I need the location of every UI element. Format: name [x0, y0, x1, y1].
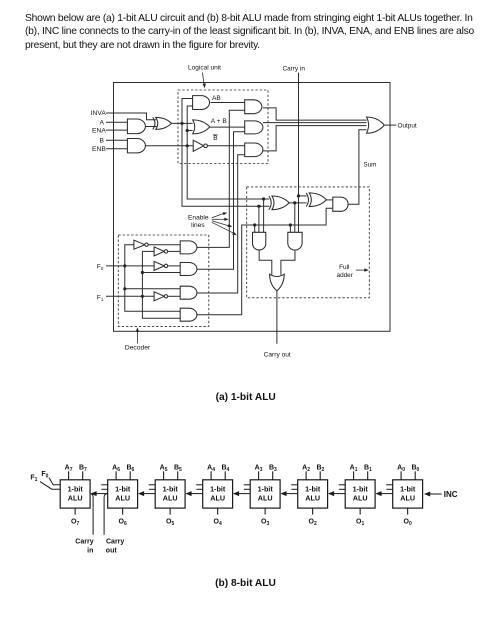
wire carry-in branch to XOR2 top input	[299, 195, 307, 197]
bus stubs into ALU box 2	[291, 484, 298, 486]
wire O6 output	[122, 508, 124, 514]
wire O2 output	[312, 508, 314, 514]
wire B1 input	[367, 471, 369, 480]
node B tap on B row	[186, 144, 189, 147]
svg-text:ALU: ALU	[258, 494, 273, 503]
svg-text:1-bit: 1-bit	[68, 484, 84, 493]
node enable tap to left carry AND	[253, 223, 256, 226]
wire tap down from bottom input	[258, 206, 260, 232]
svg-text:A + B: A + B	[211, 118, 228, 125]
svg-text:Output: Output	[398, 122, 417, 129]
inverter NOT B (logical unit)	[193, 140, 204, 151]
wire carry from ALU 6 to ALU 7 with arrow	[96, 493, 108, 495]
svg-text:Sum: Sum	[363, 161, 376, 168]
wire enable stub into right carry AND	[289, 225, 291, 232]
wire inverter4 out to AND3 bottom	[168, 295, 181, 297]
wire A+B row to enable gate 2	[210, 126, 245, 128]
node F1 tap	[141, 295, 144, 298]
svg-text:O4: O4	[214, 518, 222, 527]
svg-text:ALU: ALU	[115, 494, 130, 503]
enable AND gate 1 (AB)	[245, 100, 262, 114]
wire XOR2 out to sum AND	[326, 199, 333, 201]
svg-text:ALU: ALU	[68, 494, 83, 503]
wire A5 input	[163, 471, 165, 480]
wire B2 input	[319, 471, 321, 480]
svg-text:F1: F1	[30, 474, 37, 483]
svg-text:ALU: ALU	[163, 494, 178, 503]
svg-text:O3: O3	[261, 518, 269, 527]
dashed box decoder	[118, 235, 209, 326]
wire B7 input	[82, 471, 84, 480]
wire carry from ALU 2 to ALU 3 with arrow	[286, 493, 298, 495]
svg-text:Full: Full	[339, 264, 349, 271]
wire F0 branch to AND3 top	[125, 288, 180, 290]
wire ENB input	[106, 148, 127, 150]
wire A input	[106, 121, 127, 123]
wire F0 vertical with elbows to inverter1 and AND4 top	[125, 245, 180, 312]
wire A3 input	[258, 471, 260, 480]
svg-text:1-bit: 1-bit	[258, 484, 274, 493]
svg-text:ALU: ALU	[353, 494, 368, 503]
right carry AND gate (vertical)	[288, 232, 302, 250]
wire decoder enable line 3 to gate3	[197, 155, 245, 293]
wire AB row to enable gate 1	[211, 102, 245, 104]
svg-text:F0: F0	[97, 264, 104, 273]
wire INVA input with step into XOR	[106, 113, 156, 120]
wire F1 into ALU 7	[40, 482, 60, 490]
wire carry out	[276, 291, 278, 344]
wire B3 input	[272, 471, 274, 480]
wire A4 input	[210, 471, 212, 480]
wire decoder enable line 1 to gate1	[197, 110, 245, 247]
wire carry from ALU 4 to ALU 5 with arrow	[191, 493, 203, 495]
svg-text:O5: O5	[166, 518, 174, 527]
svg-text:(b) 8-bit ALU: (b) 8-bit ALU	[215, 578, 276, 589]
node F1 branch to decoder AND2	[141, 271, 144, 274]
decoder inverter 2	[154, 247, 164, 256]
bus stubs into ALU box 6	[101, 484, 108, 486]
1-bit ALU box 2	[298, 480, 328, 508]
bus stubs into ALU box 1	[339, 484, 346, 486]
left carry AND gate (vertical)	[253, 232, 266, 250]
wire carry from ALU 3 to ALU 4 with arrow	[238, 493, 250, 495]
wire inverter1 out to AND1 top	[148, 244, 180, 246]
node F0 branch to decoder AND3	[123, 287, 126, 290]
sum enable AND gate	[333, 197, 348, 211]
svg-text:ALU: ALU	[305, 494, 320, 503]
decoder inverter 1	[134, 240, 145, 249]
svg-text:Decoder: Decoder	[125, 345, 151, 352]
decoder AND gate 4	[180, 308, 197, 321]
wire left carry AND out zigzag to carry OR	[259, 251, 272, 275]
wire B6 input	[129, 471, 131, 480]
node XOR1 out tap	[293, 201, 296, 204]
wire B5 input	[177, 471, 179, 480]
wire B input	[106, 139, 127, 141]
wire A vertical x=182 with elbows to AND-AB top and full adder XOR1 bottom	[182, 99, 269, 207]
svg-text:F1: F1	[97, 295, 104, 304]
1-bit ALU box 6	[108, 480, 138, 508]
decoder AND gate 3	[180, 286, 197, 299]
1-bit ALU box 4	[203, 480, 233, 508]
svg-text:Carry in: Carry in	[283, 66, 306, 73]
wire F1 vertical with elbows to inverter2 and AND4 bottom	[142, 251, 180, 318]
wire tap down from top input	[263, 199, 265, 232]
wire B-bar row to enable gate 3	[207, 145, 245, 147]
wire F1 branch to AND2 bottom	[142, 272, 180, 274]
svg-text:Enable: Enable	[188, 215, 209, 222]
dashed box full adder	[247, 187, 370, 298]
wire ENA input	[106, 129, 127, 131]
wire F0 input	[106, 265, 154, 267]
bus stubs into ALU box 4	[196, 484, 203, 486]
wire carry out tap below ALU 6	[104, 494, 107, 535]
svg-text:INC: INC	[444, 490, 458, 499]
wire A2 input	[305, 471, 307, 480]
wire A1 input	[353, 471, 355, 480]
svg-text:INVA: INVA	[91, 110, 107, 117]
bus stubs into ALU box 3	[244, 484, 251, 486]
1-bit ALU box 7	[60, 480, 90, 508]
wire right carry AND out zigzag to carry OR	[281, 251, 295, 275]
svg-text:F0: F0	[41, 471, 48, 480]
AND gate AB (logical unit)	[193, 96, 210, 110]
svg-text:AB: AB	[212, 95, 221, 102]
svg-text:Logical unit: Logical unit	[188, 65, 221, 72]
svg-text:(a) 1-bit ALU: (a) 1-bit ALU	[216, 392, 276, 403]
wire A0 input	[400, 471, 402, 480]
wire enable gate2 out to output OR	[263, 122, 367, 124]
svg-text:ALU: ALU	[400, 494, 415, 503]
wire O4 output	[217, 508, 219, 514]
wire carry from ALU 5 to ALU 6 with arrow	[143, 493, 155, 495]
outer box of 1-bit ALU (a)	[114, 83, 391, 332]
decoder inverter 3	[154, 261, 164, 270]
wire O0 output	[407, 508, 409, 514]
svg-text:in: in	[87, 547, 93, 554]
svg-text:lines: lines	[191, 222, 205, 229]
svg-text:O7: O7	[71, 518, 79, 527]
decoder inverter 4	[154, 292, 164, 301]
XOR gate input stage	[153, 117, 155, 129]
wire output	[384, 124, 396, 126]
output OR gate	[367, 117, 385, 133]
wire F1 input	[106, 295, 154, 297]
svg-text:Carry: Carry	[75, 538, 93, 545]
dashed box logical unit	[178, 90, 268, 164]
svg-text:Carry: Carry	[106, 538, 124, 545]
wire inverter3 out to AND2 top	[168, 265, 181, 267]
svg-text:1-bit: 1-bit	[115, 484, 131, 493]
enable AND gate 3 (NOT B)	[245, 143, 263, 157]
OR gate A+B (logical unit)	[193, 120, 210, 134]
svg-text:1-bit: 1-bit	[400, 484, 416, 493]
svg-text:Carry out: Carry out	[264, 352, 291, 359]
AND gate B.ENB	[127, 139, 145, 153]
svg-text:1-bit: 1-bit	[353, 484, 369, 493]
wire enable gate3 out bracket to output OR	[263, 126, 367, 151]
1-bit ALU box 3	[250, 480, 280, 508]
wire B row: B.ENB out to inverter	[145, 145, 193, 147]
wire O3 output	[264, 508, 266, 514]
node enable tap to right carry AND	[289, 223, 292, 226]
wire B vertical x=187.2 with elbows to AND-AB bottom and XOR1 top	[187, 106, 269, 199]
svg-text:A: A	[100, 119, 105, 126]
wire carry from ALU 1 to ALU 2 with arrow	[333, 493, 345, 495]
wire B0 input	[414, 471, 416, 480]
XOR gate 1 of full adder	[269, 196, 271, 210]
enable AND gate 2 (A+B)	[245, 121, 263, 134]
decoder AND gate 2	[180, 263, 197, 276]
svg-text:1-bit: 1-bit	[163, 484, 179, 493]
node A tap	[180, 122, 183, 125]
wire XOR1 out tap down to right carry AND	[294, 203, 296, 232]
1-bit ALU box 5	[155, 480, 185, 508]
wire enable stub into left carry AND	[254, 225, 256, 232]
svg-text:O1: O1	[356, 518, 364, 527]
wire carry-in down to right carry AND	[298, 196, 300, 232]
1-bit ALU box 1	[345, 480, 375, 508]
svg-text:1-bit: 1-bit	[305, 484, 321, 493]
1-bit ALU box 0	[393, 480, 423, 508]
wire A.ENA out to XOR	[145, 126, 157, 128]
wire enable gate1 out bracket to output OR	[263, 108, 367, 120]
node B to OR gate	[186, 129, 189, 132]
wire A row: XOR out to OR gate	[172, 122, 193, 124]
wire O5 output	[169, 508, 171, 514]
wire inverter2 out to AND1 bottom	[168, 250, 181, 252]
wire sum AND out up to output OR	[348, 130, 367, 204]
svg-text:O0: O0	[404, 518, 412, 527]
svg-text:out: out	[106, 547, 118, 554]
wire A6 input	[115, 471, 117, 480]
decoder AND gate 1	[180, 241, 197, 254]
node tap on XOR1 bottom input to carry AND	[257, 205, 260, 208]
node tap on XOR1 top input to carry AND	[262, 197, 265, 200]
wire INC input with arrow into ALU 0	[430, 493, 442, 495]
wire O1 output	[359, 508, 361, 514]
wire carry in tap below ALU 7	[91, 494, 93, 535]
carry OR gate (vertical)	[270, 274, 285, 291]
svg-text:1-bit: 1-bit	[210, 484, 226, 493]
wire XOR1 out row to XOR2	[289, 202, 307, 204]
svg-text:ALU: ALU	[210, 494, 225, 503]
wire decoder enable line 2 to gate2	[197, 132, 245, 269]
node carry-in branch	[297, 194, 300, 197]
wire carry-in vertical	[298, 73, 300, 196]
svg-text:ENA: ENA	[92, 127, 106, 134]
svg-text:O6: O6	[119, 518, 127, 527]
wire B4 input	[224, 471, 226, 480]
AND gate A.ENA	[127, 119, 145, 134]
svg-text:O2: O2	[309, 518, 317, 527]
XOR gate 2 of full adder	[306, 193, 308, 207]
bus stubs into ALU box 0	[386, 484, 393, 486]
node F0 tap	[123, 264, 126, 267]
wire B stub into OR gate bottom input	[187, 130, 192, 132]
bus stubs into ALU box 5	[149, 484, 156, 486]
svg-text:B: B	[100, 138, 105, 145]
svg-text:ENB: ENB	[92, 146, 106, 153]
wire A7 input	[68, 471, 70, 480]
wire F0 into ALU 7	[49, 478, 61, 485]
wire carry from ALU 0 to ALU 1 with arrow	[381, 493, 393, 495]
wire decoder enable line 4 to full adder	[197, 208, 333, 314]
wire O7 output	[74, 508, 76, 514]
svg-text:adder: adder	[337, 272, 354, 279]
svg-text:B: B	[213, 135, 218, 142]
